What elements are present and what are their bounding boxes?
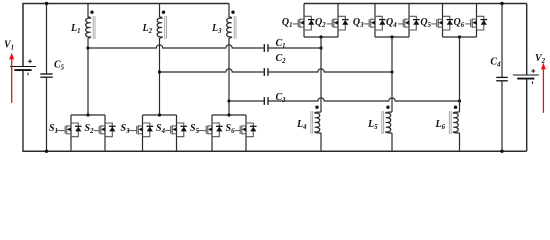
junction dot C5 top bbox=[45, 2, 48, 5]
svg-text:S5: S5 bbox=[190, 123, 200, 135]
wire S pair 3 bridge bbox=[212, 114, 246, 116]
capacitor C2 bbox=[264, 68, 268, 76]
transistor S3 bbox=[127, 123, 153, 137]
svg-text:S1: S1 bbox=[49, 123, 58, 135]
label C5 bbox=[54, 60, 65, 72]
svg-text:S2: S2 bbox=[85, 123, 95, 135]
wire Q pair 1 midpoint drop bbox=[320, 37, 322, 112]
wire L5 to bottom rail bbox=[391, 133, 393, 151]
polarity dot L4 bbox=[315, 106, 318, 109]
capacitor C1 bbox=[264, 44, 268, 52]
junction dot S pair 1 midpoint bbox=[86, 113, 89, 116]
wire S4 branch bbox=[176, 115, 178, 151]
wire Q6 branch bbox=[476, 4, 478, 38]
wire S2 branch bbox=[104, 115, 106, 151]
svg-text:V2: V2 bbox=[535, 53, 546, 65]
svg-text:L6: L6 bbox=[434, 119, 445, 131]
junction dot C3 right end bbox=[458, 99, 461, 102]
wire Q3 branch bbox=[374, 4, 376, 38]
junction dot C2 right end bbox=[390, 70, 393, 73]
svg-text:Q3: Q3 bbox=[353, 17, 364, 29]
svg-text:L5: L5 bbox=[367, 119, 378, 131]
polarity dot L1 bbox=[90, 11, 93, 14]
wire Q1 branch bbox=[303, 4, 305, 38]
inductor L6 bbox=[449, 111, 459, 134]
svg-text:S4: S4 bbox=[156, 123, 166, 135]
inductor L2 bbox=[157, 16, 166, 39]
junction dot Q pair 1 midpoint bbox=[319, 35, 322, 38]
label C2 bbox=[276, 53, 287, 65]
transistor S5 bbox=[197, 123, 223, 137]
label Q2 bbox=[315, 17, 326, 29]
svg-text:L1: L1 bbox=[70, 23, 81, 35]
wire top rail right (V2 rail) bbox=[304, 3, 527, 5]
junction dot C1 right end bbox=[319, 46, 322, 49]
label S1 bbox=[49, 123, 58, 135]
junction dot S pair 2 midpoint bbox=[158, 113, 161, 116]
label L4 bbox=[296, 119, 307, 131]
polarity dot L2 bbox=[162, 11, 165, 14]
wire Q4 branch bbox=[408, 4, 410, 38]
svg-text:C2: C2 bbox=[276, 53, 287, 65]
transistor Q6 bbox=[465, 16, 487, 30]
polarity dot L5 bbox=[386, 106, 389, 109]
wire bottom rail bbox=[22, 150, 526, 152]
svg-text:Q2: Q2 bbox=[315, 17, 326, 29]
wire Q5 branch bbox=[442, 4, 444, 38]
svg-text:C1: C1 bbox=[276, 38, 286, 50]
svg-text:V1: V1 bbox=[4, 40, 14, 52]
label L2 bbox=[141, 23, 152, 35]
wire S1 branch bbox=[70, 115, 72, 151]
wire V1 negative lead bbox=[22, 70, 24, 151]
label Q4 bbox=[386, 17, 397, 29]
battery V1 bbox=[10, 59, 36, 75]
wire Q pair 2 midpoint drop bbox=[391, 37, 393, 112]
label S3 bbox=[121, 123, 131, 135]
inductor L4 bbox=[311, 111, 321, 134]
battery V2 bbox=[513, 69, 539, 84]
label Q6 bbox=[454, 17, 465, 29]
label Q3 bbox=[353, 17, 364, 29]
wire V2 positive lead bbox=[526, 4, 528, 76]
node phase 2 junction dot bbox=[158, 70, 161, 73]
wire Q pair 1 bridge bbox=[304, 36, 338, 38]
transistor Q5 bbox=[431, 16, 453, 30]
capacitor C3 bbox=[264, 97, 268, 105]
label L1 bbox=[70, 23, 81, 35]
inductor L5 bbox=[382, 111, 392, 134]
svg-text:L3: L3 bbox=[211, 23, 222, 35]
svg-text:L4: L4 bbox=[296, 119, 307, 131]
transistor S6 bbox=[235, 123, 257, 137]
wire S pair 1 bridge bbox=[71, 114, 105, 116]
label L6 bbox=[434, 119, 445, 131]
wire Q pair 2 bridge bbox=[375, 36, 409, 38]
label S4 bbox=[156, 123, 166, 135]
label V2 bbox=[535, 53, 546, 65]
wire S6 branch bbox=[245, 115, 247, 151]
label C4 bbox=[490, 57, 501, 69]
polarity dot L6 bbox=[454, 106, 457, 109]
wire top rail to L2 bbox=[159, 4, 161, 18]
wire capacitor C2 to switch node bbox=[269, 69, 392, 72]
wire top rail to L3 bbox=[228, 4, 230, 18]
transistor S4 bbox=[165, 123, 187, 137]
wire node A3 link bbox=[229, 100, 264, 102]
svg-text:Q5: Q5 bbox=[420, 17, 431, 29]
inductor L1 bbox=[86, 16, 95, 39]
junction dot S pair 3 midpoint bbox=[227, 113, 230, 116]
label S2 bbox=[85, 123, 95, 135]
wire top rail to L1 bbox=[87, 4, 89, 18]
wire node A2 link bbox=[160, 69, 264, 72]
wire L3 bottom to S-pair bridge bbox=[228, 38, 230, 115]
transistor Q3 bbox=[364, 16, 386, 30]
wire L6 to bottom rail bbox=[459, 133, 461, 151]
wire L1 bottom to S-pair bridge bbox=[87, 38, 89, 115]
node phase 1 junction dot bbox=[86, 46, 89, 49]
transistor S1 bbox=[56, 123, 82, 137]
svg-text:Q4: Q4 bbox=[386, 17, 397, 29]
capacitor C5 bbox=[40, 4, 52, 152]
wire Q pair 3 bridge bbox=[443, 36, 477, 38]
junction dot C4 top bbox=[500, 2, 503, 5]
transistor Q1 bbox=[293, 16, 315, 30]
wire Q2 branch bbox=[337, 4, 339, 38]
polarity dot L3 bbox=[231, 11, 234, 14]
svg-text:S6: S6 bbox=[226, 123, 236, 135]
junction dot C5 bottom bbox=[45, 150, 48, 153]
svg-text:L2: L2 bbox=[141, 23, 152, 35]
svg-text:C3: C3 bbox=[276, 92, 287, 104]
wire L4 to bottom rail bbox=[320, 133, 322, 151]
transistor Q4 bbox=[398, 16, 420, 30]
wire S5 branch bbox=[211, 115, 213, 151]
wire node A1 link bbox=[88, 45, 264, 48]
wire V2 negative lead bbox=[526, 79, 528, 152]
svg-text:Q6: Q6 bbox=[454, 17, 465, 29]
label S6 bbox=[226, 123, 236, 135]
junction dot C4 bottom bbox=[500, 150, 503, 153]
wire V1 positive lead and left top rail bbox=[23, 4, 229, 67]
transistor S2 bbox=[94, 123, 116, 137]
svg-text:C5: C5 bbox=[54, 60, 65, 72]
arrow V2 (red) bbox=[541, 63, 546, 113]
label L3 bbox=[211, 23, 222, 35]
svg-text:C4: C4 bbox=[490, 57, 501, 69]
wire Q pair 3 midpoint drop bbox=[459, 37, 461, 112]
label C1 bbox=[276, 38, 286, 50]
junction dot Q pair 3 midpoint bbox=[458, 35, 461, 38]
label L5 bbox=[367, 119, 378, 131]
wire capacitor C3 to switch node bbox=[269, 98, 460, 101]
arrow V1 (red) bbox=[9, 53, 14, 103]
wire L2 bottom to S-pair bridge bbox=[159, 38, 161, 115]
inductor L3 bbox=[227, 16, 236, 39]
label Q1 bbox=[282, 17, 293, 29]
wire S3 branch bbox=[142, 115, 144, 151]
wire capacitor C1 to switch node bbox=[269, 47, 321, 49]
label S5 bbox=[190, 123, 200, 135]
label C3 bbox=[276, 92, 287, 104]
svg-text:S3: S3 bbox=[121, 123, 131, 135]
node phase 3 junction dot bbox=[227, 99, 230, 102]
label V1 bbox=[4, 40, 14, 52]
transistor Q2 bbox=[327, 16, 349, 30]
svg-text:Q1: Q1 bbox=[282, 17, 293, 29]
wire S pair 2 bridge bbox=[143, 114, 177, 116]
junction dot Q pair 2 midpoint bbox=[390, 35, 393, 38]
capacitor C4 bbox=[496, 4, 508, 152]
label Q5 bbox=[420, 17, 431, 29]
